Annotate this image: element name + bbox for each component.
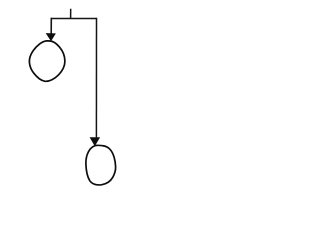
wire to node A (left vertical edge) [50,18,52,34]
node A (hand-drawn ellipse) [29,41,65,81]
wire to node B (right vertical edge) [95,18,97,138]
node B (hand-drawn ellipse) [86,145,116,185]
fork bar (horizontal wire) [51,18,97,20]
arrowhead into node A [46,33,56,41]
arrowhead into node B [90,137,101,146]
node stub (incoming edge tick) [70,9,72,19]
